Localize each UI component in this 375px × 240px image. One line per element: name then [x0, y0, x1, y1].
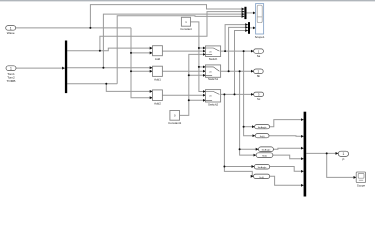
svg-text:P: P [342, 158, 344, 162]
Switch block [206, 46, 221, 61]
inport Tom1 Tom2 TOMB [6, 66, 16, 83]
Add1 block [153, 66, 163, 81]
svg-text:Add: Add [155, 57, 161, 61]
svg-text:SinAngle: SinAngle [258, 166, 268, 169]
wire: Demux out1 riser rail to Mux A in2 [100, 12, 244, 51]
svg-text:Add1: Add1 [154, 78, 161, 82]
wire: Constant branch to Switch1 in1 [199, 66, 206, 68]
wire: Constant output drop [191, 22, 206, 92]
block B3 SinAngle1 [259, 147, 274, 152]
wire: Constant1 branch to Switch1 in3 [189, 74, 206, 76]
svg-text:Switch2: Switch2 [208, 102, 219, 106]
wire: Mux C out to P outport [306, 152, 338, 154]
wire: Demux out3 [67, 83, 117, 85]
svg-text:Switch1: Switch1 [208, 77, 219, 81]
block B1 SinAngle [255, 125, 270, 130]
wire: Add1 out to Switch1 in2 [162, 70, 205, 72]
Switch2 block [206, 90, 221, 107]
svg-text:Switch: Switch [209, 57, 218, 61]
wire: Demux out1 to Add in1 [67, 48, 152, 51]
outport P [338, 151, 348, 161]
Scope1 block [255, 4, 265, 39]
Add block [153, 46, 163, 61]
wire: Mux A out to Scope1 in1 [247, 12, 256, 14]
wire: out3 riser to Mux B in3 [235, 31, 248, 95]
wire: out1 riser to Mux B in1 [225, 25, 248, 51]
svg-text:1: 1 [343, 152, 345, 156]
wire: out3 branch down to Add2 in1 [106, 84, 152, 92]
wire: Constant1 branch to Switch2 in3 [189, 99, 206, 101]
svg-text:Sa(t): Sa(t) [260, 135, 265, 138]
wire: B1 out to Mux C in1 [270, 120, 304, 127]
wire: out3 drop to B5 B6 pair [224, 94, 253, 176]
wire: Wave branch up to Mux A in1 [90, 5, 244, 28]
svg-text:SinAngle: SinAngle [262, 149, 272, 152]
wire: Mux B out to Scope1 in2 [250, 27, 256, 29]
Scope block [356, 172, 365, 187]
Switch1 block [206, 65, 221, 81]
wire: out1 drop to B1 B2 pair [244, 51, 256, 136]
svg-text:Add2: Add2 [154, 101, 161, 105]
svg-text:TOMB: TOMB [7, 79, 16, 83]
svg-text:Sb: Sb [257, 74, 261, 78]
inport Wave [6, 26, 16, 36]
window top chrome edge [0, 0, 375, 2]
wire: Wave branch to Add in2 [131, 52, 152, 54]
svg-text:Wave: Wave [7, 31, 15, 35]
svg-text:Scope: Scope [357, 183, 366, 187]
wire: branch down to Scope [327, 153, 356, 177]
wire: Add out to Switch in2 [162, 50, 205, 52]
wire: Wave branch to Add1 in2 [131, 70, 152, 72]
wire: Add2 out to Switch2 in2 [162, 94, 205, 96]
wire: Switch out to Sa outport [221, 50, 254, 52]
block B5 SinAngle2 [254, 164, 269, 169]
svg-text:Constant1: Constant1 [168, 121, 182, 125]
svg-text:Constant: Constant [180, 27, 192, 31]
Add2 block [153, 90, 163, 106]
wire: B3 out to Mux C in3 [273, 148, 303, 149]
mux B bar [248, 22, 250, 34]
block B6 Sc(t) [254, 174, 270, 179]
wire: Switch2 out to Sc outport [221, 93, 254, 95]
svg-text:1: 1 [10, 67, 12, 71]
wire: B5 out to Mux C in5 [270, 167, 304, 172]
wire: B4 out to Mux C in4 [273, 155, 304, 159]
wire: branch to block B1 [244, 126, 255, 128]
wire: branch to block B5 [224, 166, 254, 168]
svg-text:Scope1: Scope1 [255, 35, 265, 39]
outport Sc [254, 92, 264, 101]
svg-text:SinAngle: SinAngle [258, 126, 268, 129]
wire: Constant1 output riser [180, 54, 206, 115]
block B4 Sb(t) [256, 153, 273, 158]
constant1 block [168, 111, 182, 125]
wire: branch to block B3 [240, 148, 259, 150]
wire: Wave inport main run [16, 27, 131, 29]
wire: Wave descender to Add2 in2 [131, 28, 152, 98]
mux A bar [244, 7, 246, 19]
outport Sb [254, 69, 264, 78]
wire: out3 riser to Mux A in4 [117, 16, 244, 84]
svg-text:Sb(t): Sb(t) [262, 155, 267, 158]
block B2 Sa(t) [255, 134, 269, 139]
wire: out2 drop to B3 B4 pair [240, 71, 256, 155]
wire: Constant branch to Switch in1 [199, 47, 206, 49]
wire: Demux out2 to Add1 in1 [67, 67, 152, 69]
svg-text:1: 1 [10, 26, 12, 30]
svg-text:Sa: Sa [257, 54, 261, 58]
svg-text:Sc(t): Sc(t) [259, 176, 264, 179]
constant block [180, 17, 192, 31]
wire: out2 riser to Mux A in3 [103, 14, 244, 68]
outport Sa [254, 49, 264, 58]
wire: B6 out to Mux C in6 [270, 176, 304, 185]
mux C bar [304, 112, 307, 197]
wire: B2 out to Mux C in2 [269, 135, 304, 138]
wire: out2 riser to Mux B in2 [229, 27, 248, 71]
wire: Tom inport to Demux [16, 67, 65, 69]
demux bar [65, 41, 67, 94]
wire: Switch1 out to Sb outport [221, 70, 254, 72]
